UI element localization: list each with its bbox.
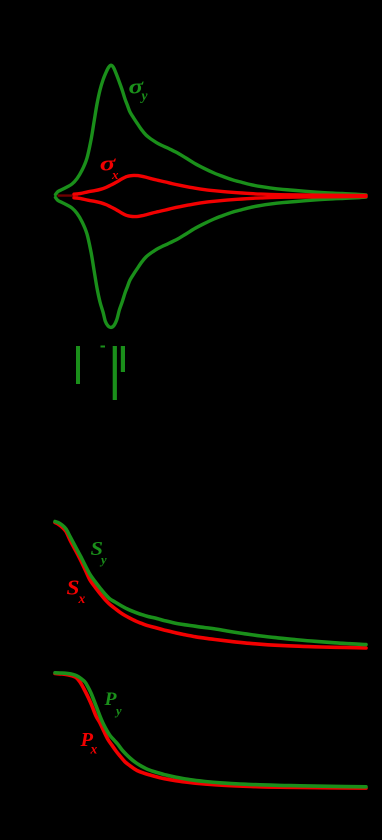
- curve S_y: [55, 522, 366, 645]
- curve S_x: [55, 523, 366, 649]
- svg-text:x: x: [78, 591, 86, 606]
- curve sigma_x upper branch: [74, 175, 366, 195]
- curve sigma_y upper branch: [56, 65, 367, 195]
- curve P_y: [55, 673, 366, 787]
- svg-text:y: y: [99, 553, 107, 567]
- svg-text:P: P: [103, 689, 116, 710]
- curve P_x: [55, 674, 366, 789]
- svg-text:y: y: [140, 88, 149, 103]
- wire dark-red center line: [58, 194, 79, 196]
- svg-text:y: y: [114, 704, 122, 718]
- curve sigma_x lower branch: [74, 197, 366, 217]
- curve sigma_y lower branch: [56, 197, 367, 327]
- stem bar 4: [121, 346, 125, 372]
- svg-text:x: x: [111, 167, 119, 182]
- stem bar 3: [113, 346, 117, 400]
- stem dash 2: [101, 346, 106, 348]
- stem bar 1: [76, 346, 80, 384]
- svg-text:x: x: [90, 742, 98, 757]
